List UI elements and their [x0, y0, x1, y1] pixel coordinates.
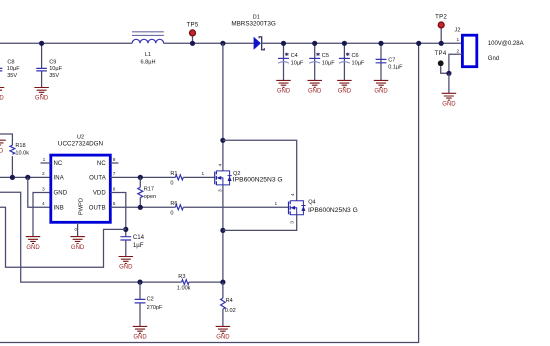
capacitor C4 — [278, 43, 304, 80]
wire VDD — [110, 193, 126, 237]
svg-text:NC: NC — [97, 161, 106, 167]
svg-text:R17: R17 — [144, 186, 154, 192]
svg-text:35V: 35V — [7, 73, 17, 79]
ground for C14 — [119, 257, 134, 271]
ground for U2 pin3 — [26, 237, 41, 251]
wire top rail left — [0, 42, 132, 44]
ground for C6 — [337, 80, 352, 94]
node junction output loop — [416, 41, 421, 46]
node junction source loop — [220, 228, 225, 233]
svg-text:R18: R18 — [15, 143, 25, 149]
svg-text:GND: GND — [216, 335, 230, 341]
svg-text:NC: NC — [54, 161, 63, 167]
svg-text:IPB600N25N3 G: IPB600N25N3 G — [308, 207, 358, 214]
node VDD branch — [123, 227, 128, 232]
svg-text:TP4: TP4 — [434, 51, 446, 57]
svg-text:R1: R1 — [170, 171, 177, 177]
ground for J2 — [442, 93, 457, 107]
capacitor C6 — [339, 43, 365, 80]
svg-text:10µF: 10µF — [291, 60, 304, 66]
wire output loop (feedback run) — [0, 43, 419, 342]
svg-text:TP2: TP2 — [435, 15, 447, 21]
op-amp U2 UCC27324DGN — [41, 135, 119, 237]
svg-text:6.8µH: 6.8µH — [140, 59, 155, 65]
svg-text:10µF: 10µF — [352, 60, 365, 66]
resistor R18 — [10, 143, 29, 156]
svg-text:L1: L1 — [145, 52, 151, 58]
diode D1 MBRS3200T3G — [231, 15, 276, 50]
wire INA to INB — [28, 177, 51, 207]
wire R18 to INA — [11, 156, 13, 177]
svg-text:GND: GND — [119, 265, 133, 271]
svg-text:10µF: 10µF — [49, 66, 62, 72]
svg-text:C14: C14 — [133, 234, 145, 241]
node junction C9 — [39, 41, 44, 46]
svg-text:IPB600N25N3 G: IPB600N25N3 G — [233, 177, 283, 184]
ground for C4 — [276, 80, 291, 94]
capacitor C2 — [135, 282, 163, 326]
svg-text:GND: GND — [0, 96, 4, 102]
wire to R18 — [0, 134, 12, 145]
wire Q2 source down — [222, 185, 224, 282]
testpoint TP4 — [434, 51, 448, 73]
svg-text:GND: GND — [374, 89, 388, 95]
svg-text:open: open — [144, 194, 156, 200]
svg-text:C4: C4 — [291, 53, 298, 59]
svg-text:10.0k: 10.0k — [15, 150, 29, 156]
svg-text:0: 0 — [170, 210, 173, 216]
node C2 — [137, 280, 142, 285]
svg-text:4: 4 — [42, 201, 45, 207]
node junction C5 — [312, 41, 317, 46]
svg-text:0.1µF: 0.1µF — [388, 64, 403, 70]
svg-text:1: 1 — [43, 157, 46, 163]
ground for C5 — [307, 80, 322, 94]
svg-text:10µF: 10µF — [322, 60, 335, 66]
svg-text:1.00k: 1.00k — [177, 285, 191, 291]
svg-text:3: 3 — [290, 221, 296, 224]
capacitor C5 — [309, 43, 335, 80]
ground for U2 pad pin9 — [70, 237, 85, 251]
svg-text:GND: GND — [0, 148, 4, 154]
svg-text:J2: J2 — [455, 27, 461, 33]
wire VDD supply loop — [0, 207, 126, 267]
wire rail diode to J2 — [262, 42, 463, 44]
svg-text:10µF: 10µF — [7, 66, 20, 72]
svg-text:R6: R6 — [170, 201, 177, 207]
transistor Q4 — [275, 193, 358, 224]
svg-text:2: 2 — [42, 171, 45, 177]
wire OUTA row — [110, 176, 175, 178]
svg-text:INB: INB — [54, 205, 64, 211]
svg-text:PWPD: PWPD — [79, 198, 85, 215]
svg-text:C2: C2 — [147, 296, 154, 302]
node junction TP2 — [439, 41, 444, 46]
ground for C8 (partial) — [0, 88, 4, 102]
svg-text:UCC27324DGN: UCC27324DGN — [58, 141, 104, 148]
capacitor C9 — [36, 43, 62, 87]
wire parallel loop bottom — [223, 215, 297, 231]
svg-text:GND: GND — [26, 245, 40, 251]
node junction TP4 — [446, 71, 451, 76]
node junction C7 — [378, 41, 383, 46]
svg-text:2: 2 — [457, 48, 460, 54]
svg-text:9: 9 — [73, 228, 79, 231]
svg-text:VDD: VDD — [93, 191, 107, 197]
wire Q2 drain branch — [222, 43, 224, 171]
svg-text:R3: R3 — [178, 274, 185, 280]
node junction Q2 branch — [220, 41, 225, 46]
svg-text:TP5: TP5 — [186, 23, 198, 29]
ground for C9 — [34, 88, 49, 102]
capacitor C8 (partial at edge) — [0, 59, 20, 78]
testpoint TP5 — [186, 23, 198, 44]
wire to J2 ground — [448, 73, 450, 93]
resistor R1 — [170, 171, 183, 187]
svg-text:C6: C6 — [352, 53, 359, 59]
node junction R18-INA — [10, 175, 15, 180]
wire left stub2 down to R3 row — [0, 192, 182, 282]
connector J2 — [455, 27, 477, 66]
node junction C6 — [342, 41, 347, 46]
svg-text:1: 1 — [275, 201, 278, 207]
node junction INA-INB — [25, 175, 30, 180]
transistor Q2 — [202, 163, 283, 192]
svg-text:4: 4 — [218, 163, 224, 166]
wire rail L1 to diode — [164, 42, 254, 44]
svg-text:C8: C8 — [7, 59, 14, 65]
node junction TP5 — [190, 41, 195, 46]
svg-text:R4: R4 — [226, 298, 233, 304]
svg-text:GND: GND — [71, 245, 85, 251]
svg-text:35V: 35V — [49, 73, 59, 79]
svg-text:1µF: 1µF — [133, 242, 144, 249]
svg-text:6: 6 — [113, 186, 116, 192]
resistor R4 — [221, 282, 236, 326]
wire R1 to Q2 gate — [183, 176, 214, 178]
svg-text:0: 0 — [170, 180, 173, 186]
svg-text:7: 7 — [113, 171, 116, 177]
svg-text:MBRS3200T3G: MBRS3200T3G — [231, 20, 276, 27]
wire parallel loop top — [223, 140, 297, 201]
testpoint TP2 — [435, 15, 447, 44]
resistor R6 — [170, 201, 183, 217]
node junction C4 — [281, 41, 286, 46]
svg-text:3: 3 — [42, 186, 45, 192]
svg-text:270pF: 270pF — [147, 305, 163, 311]
ground for R4 — [216, 326, 231, 340]
svg-text:Q4: Q4 — [308, 199, 315, 205]
ground for C2 — [133, 326, 148, 340]
svg-text:1: 1 — [202, 171, 205, 177]
svg-text:C7: C7 — [388, 57, 395, 63]
svg-text:GND: GND — [277, 89, 291, 95]
svg-text:0.02: 0.02 — [225, 308, 236, 314]
svg-text:GND: GND — [308, 89, 322, 95]
node junction R4 — [220, 280, 225, 285]
wire INA — [0, 176, 51, 178]
svg-text:C9: C9 — [49, 59, 56, 65]
wire GND pin3 — [33, 193, 51, 237]
ground partial top-left — [0, 140, 6, 154]
wire R3 to R4 node — [189, 281, 223, 283]
svg-text:INA: INA — [54, 176, 64, 182]
wire J2 pin2 — [449, 54, 463, 73]
svg-text:Gnd: Gnd — [488, 56, 499, 62]
wire R6 to Q4 gate — [183, 206, 288, 208]
capacitor C7 — [376, 43, 404, 80]
node junction OUTB-R17 — [138, 205, 143, 210]
resistor R3 — [177, 274, 191, 291]
svg-text:GND: GND — [35, 96, 49, 102]
svg-text:GND: GND — [338, 89, 352, 95]
svg-text:GND: GND — [442, 102, 456, 108]
capacitor C14 — [120, 234, 144, 256]
svg-text:100V@0.28A: 100V@0.28A — [488, 41, 524, 47]
svg-text:GND: GND — [54, 191, 68, 197]
resistor R17 — [138, 177, 156, 207]
svg-text:C5: C5 — [322, 53, 329, 59]
ground for C7 — [374, 80, 389, 94]
svg-text:OUTA: OUTA — [89, 176, 106, 182]
node junction OUTA-R17 — [138, 175, 143, 180]
svg-text:5: 5 — [113, 201, 116, 207]
svg-text:1: 1 — [457, 37, 460, 43]
svg-text:4: 4 — [290, 193, 296, 196]
node junction drain loop — [220, 138, 225, 143]
svg-text:GND: GND — [133, 335, 147, 341]
svg-text:OUTB: OUTB — [89, 205, 106, 211]
svg-text:8: 8 — [113, 157, 116, 163]
wire OUTB row — [110, 206, 175, 208]
inductor L1 — [132, 32, 164, 66]
